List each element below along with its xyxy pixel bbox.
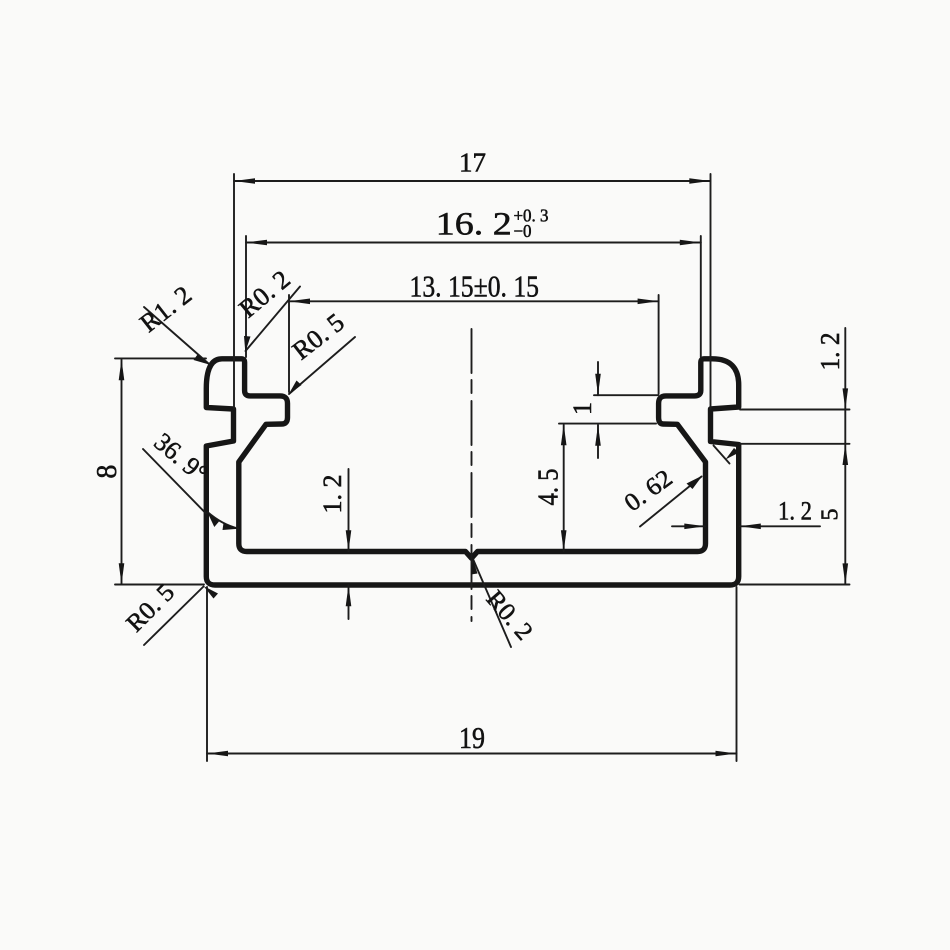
dimension 8 lines	[121, 360, 123, 585]
svg-text:R1. 2: R1. 2	[134, 280, 197, 338]
dimension 1 lines	[597, 362, 599, 395]
dimension 19 lines	[207, 753, 737, 755]
svg-text:1: 1	[568, 402, 597, 415]
svg-text:−0: −0	[514, 221, 532, 241]
svg-text:R0. 5: R0. 5	[121, 579, 180, 638]
svg-text:36. 9°: 36. 9°	[149, 427, 214, 488]
leader R0.5 bottom	[144, 587, 204, 646]
svg-text:1. 2: 1. 2	[318, 475, 347, 514]
svg-text:8: 8	[92, 465, 123, 479]
dimension 17 lines	[234, 180, 710, 182]
extrusion profile outline	[206, 359, 738, 585]
dimension 13.15 lines	[289, 300, 659, 302]
svg-text:17: 17	[459, 148, 486, 178]
dimension 1.2 wall lines	[672, 525, 705, 527]
svg-text:19: 19	[459, 720, 485, 755]
dimension 1.2 floor lines	[348, 469, 350, 551]
svg-text:13. 15±0. 15: 13. 15±0. 15	[410, 269, 540, 304]
36.9 angle arc arrows	[208, 513, 220, 528]
0.62 arrows	[687, 476, 703, 490]
svg-text:R0. 2: R0. 2	[481, 586, 538, 646]
svg-text:5: 5	[817, 509, 843, 521]
dimension 16.2 lines	[246, 242, 701, 244]
leader R0.2 top	[246, 287, 301, 352]
dimension 4.5 line	[563, 425, 565, 551]
right side dimension stack 1.2 and 5	[844, 328, 846, 585]
dimension texts	[92, 148, 845, 755]
arrowheads	[119, 178, 848, 756]
svg-text:R0. 5: R0. 5	[287, 308, 350, 366]
svg-text:1. 2: 1. 2	[778, 497, 812, 526]
angle 36.9 leader and arc	[143, 449, 206, 514]
svg-text:1. 2: 1. 2	[815, 333, 845, 371]
svg-text:0. 62: 0. 62	[620, 465, 678, 517]
leader arrowheads	[194, 355, 211, 365]
centerline	[471, 329, 473, 621]
leader R0.2 bottom	[473, 559, 511, 647]
svg-text:R0. 2: R0. 2	[233, 265, 295, 324]
svg-text:16. 2: 16. 2	[436, 207, 512, 243]
leader R1.2	[144, 307, 209, 364]
leader R0.5 top	[289, 337, 355, 394]
svg-text:4. 5: 4. 5	[534, 469, 565, 506]
0.62 leader and offset line	[640, 477, 702, 527]
